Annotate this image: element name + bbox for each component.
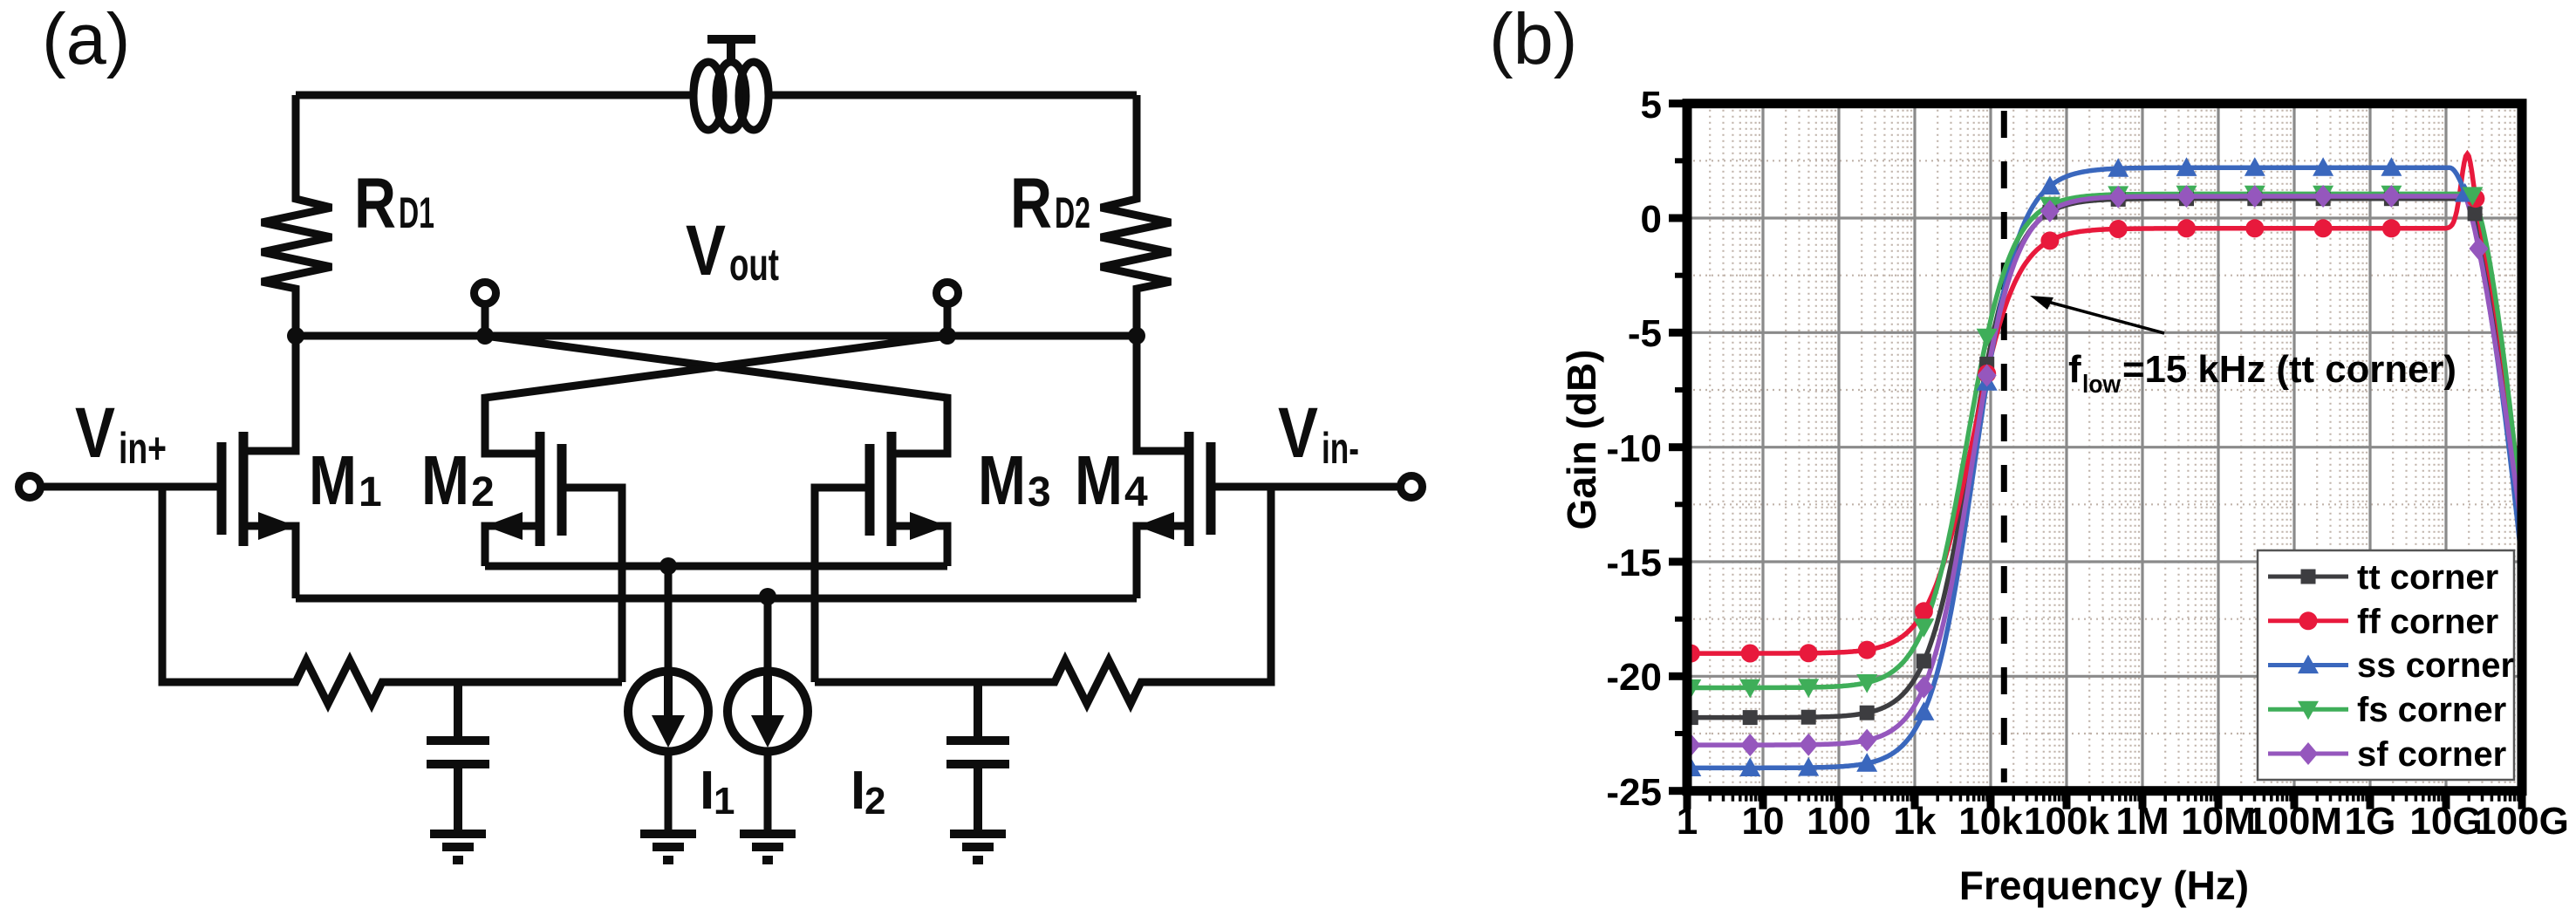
svg-text:100G: 100G: [2475, 800, 2569, 843]
svg-text:1: 1: [1677, 800, 1698, 843]
svg-text:=15 kHz (tt corner): =15 kHz (tt corner): [2122, 348, 2456, 391]
svg-text:ff corner: ff corner: [2357, 603, 2498, 641]
svg-text:100k: 100k: [2024, 800, 2109, 843]
svg-text:1M: 1M: [2115, 800, 2169, 843]
svg-text:1G: 1G: [2345, 800, 2396, 843]
svg-text:in-: in-: [1322, 424, 1359, 473]
svg-text:10k: 10k: [1958, 800, 2023, 843]
svg-text:D1: D1: [399, 188, 434, 237]
svg-text:-15: -15: [1606, 542, 1662, 584]
svg-text:10: 10: [1742, 800, 1785, 843]
svg-text:out: out: [729, 240, 779, 290]
svg-text:sf corner: sf corner: [2357, 735, 2506, 774]
svg-text:R: R: [354, 164, 396, 243]
svg-text:fs corner: fs corner: [2357, 691, 2506, 729]
svg-text:M: M: [309, 441, 357, 519]
svg-text:I: I: [700, 761, 714, 821]
svg-text:M: M: [421, 441, 469, 519]
svg-text:0: 0: [1641, 198, 1662, 241]
svg-text:ss corner: ss corner: [2357, 646, 2514, 685]
svg-text:10M: 10M: [2181, 800, 2256, 843]
svg-text:(b): (b): [1489, 0, 1577, 79]
svg-text:M: M: [978, 441, 1026, 519]
svg-text:V: V: [75, 393, 115, 473]
svg-text:-10: -10: [1606, 427, 1662, 470]
svg-text:in+: in+: [119, 424, 167, 473]
svg-text:V: V: [1278, 393, 1318, 473]
svg-text:Frequency (Hz): Frequency (Hz): [1959, 863, 2249, 908]
svg-text:3: 3: [1028, 469, 1051, 516]
svg-text:-20: -20: [1606, 656, 1662, 699]
svg-text:1: 1: [359, 469, 382, 516]
svg-text:M: M: [1075, 441, 1123, 519]
svg-text:V: V: [686, 211, 726, 290]
svg-text:(a): (a): [42, 0, 130, 79]
svg-text:D2: D2: [1055, 188, 1090, 237]
svg-text:f: f: [2068, 348, 2081, 391]
svg-text:-25: -25: [1606, 771, 1662, 814]
svg-text:1: 1: [714, 780, 735, 823]
svg-text:100M: 100M: [2246, 800, 2342, 843]
svg-text:I: I: [851, 761, 865, 821]
svg-text:low: low: [2082, 371, 2121, 399]
svg-text:-5: -5: [1628, 312, 1662, 355]
svg-text:2: 2: [864, 780, 885, 823]
svg-text:2: 2: [471, 469, 495, 516]
svg-text:1k: 1k: [1894, 800, 1937, 843]
svg-text:10G: 10G: [2409, 800, 2482, 843]
svg-text:100: 100: [1807, 800, 1870, 843]
svg-text:4: 4: [1124, 469, 1148, 516]
svg-text:tt corner: tt corner: [2357, 558, 2498, 597]
svg-text:R: R: [1010, 164, 1052, 243]
svg-text:5: 5: [1641, 84, 1662, 126]
svg-text:Gain (dB): Gain (dB): [1559, 350, 1604, 530]
